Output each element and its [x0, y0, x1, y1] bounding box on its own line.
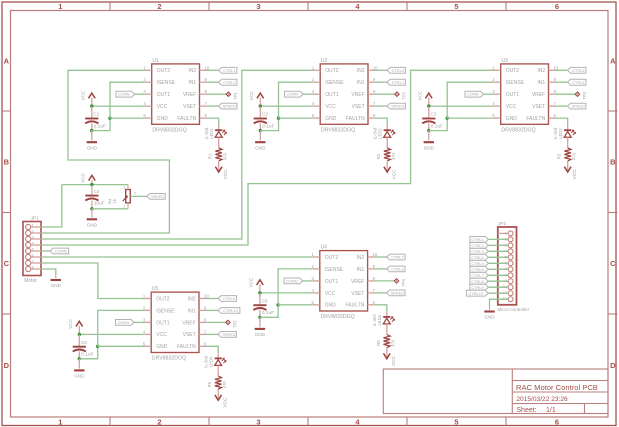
wire JP1 pin1 to VCC rail: [41, 185, 62, 227]
pin 9 IN1: [368, 81, 375, 83]
pin 8 VREF: [200, 93, 207, 95]
svg-text:VCC: VCC: [222, 397, 228, 408]
svg-text:2: 2: [32, 229, 34, 233]
vcc U5: [76, 321, 83, 326]
vcc below R3: [564, 167, 571, 172]
svg-text:JP1: JP1: [31, 215, 40, 221]
svg-text:FAULTN: FAULTN: [177, 116, 196, 122]
op-amp / motor-driver IC U5 DRV8832DGQ: [151, 292, 199, 352]
capacitor C6 0.1uF: [73, 346, 86, 348]
VCC supply symbol (U1): [91, 98, 93, 106]
net flag SPEED (U2): [387, 103, 405, 109]
VCC supply symbol (U3): [428, 98, 430, 106]
lead LED2: [386, 125, 388, 130]
wire U1.OUT2 to JP1 pin2: [41, 70, 169, 233]
svg-text:CONN: CONN: [286, 92, 298, 97]
lead C3 top: [428, 106, 430, 118]
wire VSET to SPEED: [375, 105, 387, 107]
pin 1 OUT2: [313, 69, 320, 71]
wire ISENSE riser to pin2: [447, 82, 494, 118]
svg-text:U2: U2: [321, 58, 328, 64]
pin 5 GND: [144, 345, 151, 347]
svg-text:LED2: LED2: [378, 128, 383, 139]
svg-text:VCC: VCC: [325, 291, 336, 297]
node VCC/C2 junction: [259, 104, 262, 107]
connector JP1 Motor: [23, 222, 41, 276]
svg-text:10: 10: [204, 294, 209, 299]
svg-text:JP2: JP2: [498, 221, 507, 227]
svg-text:C6: C6: [81, 340, 87, 345]
LED LED1 (IL-3nd): [215, 129, 222, 131]
svg-text:SPEED: SPEED: [572, 104, 585, 109]
wire to GND pin5: [278, 304, 313, 306]
net flag CTRL2: [219, 79, 237, 85]
capacitor C4 10uF: [85, 195, 98, 197]
vcc U3: [426, 93, 433, 98]
ground C5: [255, 328, 265, 330]
svg-text:C2: C2: [262, 112, 268, 117]
pin 8 VREF: [199, 321, 206, 323]
pin 3 OUT1: [313, 93, 320, 95]
pin 5 GND: [494, 117, 501, 119]
pin 9 IN1: [199, 309, 206, 311]
svg-text:CTRL9: CTRL9: [223, 296, 235, 301]
svg-text:8: 8: [32, 265, 34, 269]
lead C1 bottom: [91, 123, 93, 130]
net flag CONN (U1 OUT1): [135, 93, 145, 95]
svg-text:VSET: VSET: [352, 104, 365, 110]
svg-text:5: 5: [454, 2, 458, 11]
node GND pin junction: [446, 116, 449, 119]
svg-text:VREF: VREF: [183, 92, 196, 98]
pin 5 GND: [313, 117, 320, 119]
net flag CTRL8: [387, 266, 405, 272]
svg-text:CTRL7: CTRL7: [391, 255, 403, 260]
svg-text:1/1: 1/1: [546, 407, 556, 414]
lead R1 to VCC: [218, 161, 220, 172]
pin 10 IN2: [368, 69, 375, 71]
svg-text:CTRL1: CTRL1: [223, 68, 235, 73]
lead C4 bottom: [91, 200, 93, 208]
wire to GND pin5: [447, 117, 494, 119]
svg-text:LED1: LED1: [209, 128, 214, 139]
pin 8 VREF: [368, 280, 375, 282]
svg-text:CTRL8: CTRL8: [471, 279, 483, 284]
wire VSET to SPEED: [206, 333, 218, 335]
net flag CTRL10 (JP2): [466, 290, 488, 296]
LED LED4 (IL-3nd): [383, 316, 390, 318]
wire IN1 to CTRL4: [375, 81, 387, 83]
JP2 pin 2 pad: [508, 237, 513, 242]
JP1 pin 7 pad: [26, 260, 31, 265]
svg-text:10: 10: [554, 65, 559, 70]
svg-text:R3: R3: [557, 153, 562, 159]
svg-text:CTRL2: CTRL2: [223, 80, 235, 85]
svg-text:IN1: IN1: [188, 80, 196, 86]
VCC supply symbol (rail): [91, 180, 93, 185]
vcc rail: [89, 175, 96, 180]
frame row ticks: [2, 110, 11, 112]
pin 4 VCC: [313, 105, 320, 107]
wire C3-bottom to GND/ISENSE riser: [429, 118, 447, 131]
JP1 pin 8 pad: [26, 266, 31, 271]
svg-text:IN1: IN1: [357, 80, 365, 86]
vcc U1: [89, 93, 96, 98]
net flag CTRL10: [218, 308, 240, 314]
svg-text:CONN: CONN: [118, 92, 130, 97]
svg-text:CTRL7: CTRL7: [471, 273, 483, 278]
lead C4 to ground: [91, 209, 93, 218]
pin 2 ISENSE: [494, 81, 501, 83]
JP2 pin 8 pad: [508, 273, 513, 278]
node GND pin junction: [277, 116, 280, 119]
vcc below R6: [215, 395, 222, 400]
node C3 bottom junction: [427, 129, 430, 132]
svg-text:6: 6: [555, 2, 559, 11]
lead LED1: [218, 125, 220, 130]
net flag CTRL3 (JP2): [470, 248, 488, 254]
svg-text:U1: U1: [152, 58, 159, 64]
svg-text:DRV8832DGQ: DRV8832DGQ: [321, 127, 355, 133]
net flag CTRL6: [568, 79, 586, 85]
wire FAULTN to LED1: [207, 118, 219, 125]
ground C3: [424, 141, 434, 143]
wire VREF to TP2: [375, 93, 395, 95]
svg-text:10: 10: [373, 65, 378, 70]
wire FAULTN to LED2: [375, 118, 387, 125]
svg-text:OUT2: OUT2: [506, 68, 520, 74]
svg-text:C3: C3: [430, 112, 436, 117]
title block: [383, 369, 608, 414]
wire FAULTN to LED5: [206, 346, 218, 353]
wire R4 wiper to SPEED: [130, 195, 147, 197]
pin 2 ISENSE: [313, 81, 320, 83]
svg-text:FAULTN: FAULTN: [177, 344, 196, 350]
svg-text:LED5: LED5: [209, 356, 214, 367]
node C1 bottom junction: [90, 129, 93, 132]
svg-text:VCC: VCC: [325, 104, 336, 110]
svg-text:IN2: IN2: [537, 68, 545, 74]
net flag SPEED (U1): [219, 103, 237, 109]
svg-text:OUT2: OUT2: [156, 296, 170, 302]
lead LED3 to R3: [567, 137, 569, 148]
ground symbol under C6: [78, 359, 80, 369]
connector JP2 Micro-controller: [498, 227, 517, 305]
svg-text:TP5: TP5: [232, 320, 237, 328]
net flag CTRL2 (JP2): [470, 243, 488, 249]
ground symbol under C1: [91, 131, 93, 141]
JP2 pin 7 pad: [508, 267, 513, 272]
JP2 pin 3 pad: [508, 243, 513, 248]
lead LED4 to R5: [386, 324, 388, 335]
svg-text:GND: GND: [87, 222, 98, 227]
pin 10 IN2: [200, 69, 207, 71]
pin 4 VCC: [313, 292, 320, 294]
net flag CONN (JP1): [50, 248, 69, 254]
wire VREF to TP4: [375, 280, 395, 282]
JP2 pin 4 pad: [508, 249, 513, 254]
lead LED3: [567, 125, 569, 130]
svg-text:OUT1: OUT1: [325, 92, 339, 98]
wire U2.OUT2 to JP1 pin3: [41, 70, 313, 239]
svg-text:CTRL1: CTRL1: [471, 237, 483, 242]
pin 4 VCC: [494, 105, 501, 107]
svg-text:5: 5: [32, 247, 34, 251]
wire ISENSE riser to pin2: [110, 82, 145, 118]
svg-text:ISENSE: ISENSE: [156, 308, 175, 314]
JP1 pin 3 pad: [26, 236, 31, 241]
capacitor C1 0.1uF: [85, 118, 98, 120]
svg-text:IN1: IN1: [537, 80, 545, 86]
wire JP2 pin 6 to CTRL5: [488, 262, 508, 264]
wire VCC rail: [62, 184, 128, 186]
net flag CTRL5: [568, 67, 586, 73]
svg-text:7: 7: [32, 259, 34, 263]
net flag CTRL8 (JP2): [470, 278, 488, 284]
svg-text:DRV8832DGQ: DRV8832DGQ: [152, 356, 186, 362]
svg-text:TP1: TP1: [233, 91, 238, 99]
svg-text:C1: C1: [93, 112, 99, 117]
pin 3 OUT1: [313, 280, 320, 282]
svg-text:TP4: TP4: [401, 278, 406, 286]
op-amp / motor-driver IC U1 DRV8832DGQ: [152, 64, 200, 124]
wire VREF to TP3: [556, 93, 576, 95]
wire to GND pin5: [279, 117, 314, 119]
wire JP2 pin 8 to CTRL7: [488, 274, 508, 276]
svg-text:FAULTN: FAULTN: [345, 303, 364, 309]
JP2 pin 5 pad: [508, 255, 513, 260]
svg-text:Motor: Motor: [24, 278, 37, 284]
JP2 pin 1 pad: [508, 231, 513, 236]
pin 4 VCC: [144, 333, 151, 335]
net flag CTRL4: [387, 79, 405, 85]
wire U5.OUT2 to JP1 pin7: [41, 263, 144, 299]
svg-text:IN1: IN1: [188, 308, 196, 314]
ground C4: [87, 218, 97, 220]
svg-text:D: D: [4, 361, 10, 370]
test point TP5: [226, 320, 230, 324]
vcc below R2: [384, 167, 391, 172]
ground symbol under C5: [259, 317, 261, 327]
svg-text:Sheet:: Sheet:: [516, 407, 536, 414]
wire JP2 pin 9 to CTRL8: [488, 280, 508, 282]
svg-text:IN2: IN2: [188, 296, 196, 302]
svg-text:ISENSE: ISENSE: [157, 80, 176, 86]
lead LED1 to R1: [218, 137, 220, 148]
svg-text:VCC: VCC: [391, 355, 397, 366]
wire JP1 pin5 to CONN flag: [41, 250, 50, 252]
svg-text:VREF: VREF: [351, 279, 364, 285]
node C5 bottom junction: [258, 316, 261, 319]
svg-text:CONN: CONN: [467, 92, 479, 97]
wire IN2 to CTRL1: [207, 69, 219, 71]
wire C2-bottom to GND/ISENSE riser: [260, 118, 278, 131]
svg-text:LED4: LED4: [377, 314, 382, 325]
svg-text:3: 3: [256, 417, 260, 426]
svg-text:SPEED: SPEED: [151, 194, 164, 199]
svg-text:10: 10: [373, 252, 378, 257]
pin 1 OUT2: [494, 69, 501, 71]
wire U4.OUT2 to JP1 pin6: [41, 256, 313, 258]
VCC supply symbol (U2): [259, 98, 261, 106]
ground JP2: [484, 310, 494, 312]
svg-text:GND: GND: [506, 116, 518, 122]
svg-text:B: B: [4, 158, 10, 167]
net flag SPEED (U4): [387, 290, 405, 296]
net flag SPEED (U5): [218, 332, 236, 338]
wire IN2 to CTRL9: [206, 298, 218, 300]
svg-text:1: 1: [505, 231, 507, 235]
wire IN1 to CTRL10: [206, 309, 218, 311]
lead C4 top: [91, 185, 93, 196]
pin 3 OUT1: [145, 93, 152, 95]
svg-text:5: 5: [454, 417, 458, 426]
lead R5 to VCC: [386, 348, 388, 359]
pin 6 FAULTN: [549, 117, 556, 119]
svg-text:OUT1: OUT1: [157, 92, 171, 98]
lead C2 top: [259, 106, 261, 118]
pin 7 VSET: [549, 105, 556, 107]
node C2 bottom junction: [259, 129, 262, 132]
JP1 pin 2 pad: [26, 230, 31, 235]
pin 6 FAULTN: [200, 117, 207, 119]
svg-text:Micro-controller: Micro-controller: [498, 307, 530, 312]
test point TP4: [394, 279, 398, 283]
svg-text:VCC: VCC: [157, 104, 168, 110]
svg-text:CTRL4: CTRL4: [392, 80, 405, 85]
vcc U4: [257, 280, 264, 285]
JP2 pin 6 pad: [508, 261, 513, 266]
svg-text:SPEED: SPEED: [391, 104, 404, 109]
pin 7 VSET: [368, 292, 375, 294]
svg-text:SPEED: SPEED: [391, 290, 404, 295]
svg-text:GND: GND: [325, 303, 337, 309]
op-amp / motor-driver IC U2 DRV8832DGQ: [320, 64, 368, 124]
JP1 pin 4 pad: [26, 242, 31, 247]
wire JP2 pin 10 to CTRL9: [488, 286, 508, 288]
pin 7 VSET: [368, 105, 375, 107]
capacitor C5 0.1uF: [253, 304, 266, 306]
node GND pin junction: [108, 116, 111, 119]
svg-text:ISENSE: ISENSE: [325, 267, 344, 273]
node C4 bottom junction: [90, 207, 93, 210]
svg-text:VCC: VCC: [391, 169, 397, 180]
wire C6-bottom to GND/ISENSE riser: [79, 346, 97, 359]
svg-text:0.1uF: 0.1uF: [262, 310, 275, 316]
pin 6 FAULTN: [368, 117, 375, 119]
pin 10 IN2: [549, 69, 556, 71]
svg-text:CTRL3: CTRL3: [471, 249, 483, 254]
net flag CTRL3: [387, 67, 405, 73]
LED LED2 (IL-3nd): [384, 129, 391, 131]
svg-text:D: D: [610, 361, 616, 370]
node VCC/C1 junction: [90, 104, 93, 107]
resistor R1 470: [215, 148, 222, 161]
svg-text:IN1: IN1: [357, 267, 365, 273]
net flag CONN (U5 OUT1): [134, 321, 144, 323]
test point TP3: [575, 92, 579, 96]
wire GND rail to R4 bottom: [92, 208, 128, 210]
svg-text:FAULTN: FAULTN: [526, 116, 545, 122]
trimmer R4 1k: [126, 190, 131, 203]
pin 5 GND: [313, 304, 320, 306]
wire VCC feed to pin4: [260, 292, 313, 294]
svg-text:3: 3: [32, 235, 34, 239]
wire JP2 pin 12 to ground: [490, 299, 509, 306]
LED LED3 (IL-3nd): [564, 129, 571, 131]
net flag CTRL6 (JP2): [470, 266, 488, 272]
svg-text:CTRL4: CTRL4: [471, 255, 484, 260]
pin 6 FAULTN: [368, 304, 375, 306]
svg-text:LED3: LED3: [558, 128, 563, 139]
wire to GND pin5: [110, 117, 145, 119]
svg-text:VSET: VSET: [532, 104, 545, 110]
svg-text:GND: GND: [255, 145, 266, 150]
test point TP2: [395, 92, 399, 96]
svg-text:CTRL9: CTRL9: [471, 285, 483, 290]
pin 10 IN2: [199, 298, 206, 300]
svg-text:3: 3: [256, 2, 260, 11]
svg-text:DRV8832DGQ: DRV8832DGQ: [501, 127, 535, 133]
net flag CONN (U4 OUT1): [303, 280, 313, 282]
svg-text:IN2: IN2: [357, 255, 365, 261]
ground C1: [87, 141, 97, 143]
lead R6 to VCC: [217, 389, 219, 400]
svg-text:1: 1: [58, 2, 62, 11]
pin 1 OUT2: [313, 256, 320, 258]
wire U3.OUT2 to JP1 pin4: [41, 70, 494, 245]
capacitor C3 0.1uF: [422, 118, 435, 120]
net flag SPEED (U3): [568, 103, 586, 109]
svg-text:VREF: VREF: [532, 92, 545, 98]
wire FAULTN to LED4: [375, 305, 387, 312]
svg-text:GND: GND: [424, 145, 435, 150]
pin 2 ISENSE: [313, 268, 320, 270]
resistor R6 470: [215, 376, 222, 389]
lead R2 to VCC: [386, 161, 388, 172]
vcc U2: [257, 93, 264, 98]
svg-text:OUT1: OUT1: [325, 279, 339, 285]
wire JP2 pin 11 to CTRL10: [488, 292, 508, 294]
svg-text:CTRL8: CTRL8: [391, 267, 403, 272]
op-amp / motor-driver IC U3 DRV8832DGQ: [501, 64, 549, 124]
pin 2 ISENSE: [144, 309, 151, 311]
svg-text:GND: GND: [87, 145, 98, 150]
net flag CONN (U3 OUT1): [484, 93, 494, 95]
wire JP2 pin 2 to CTRL1: [488, 238, 508, 240]
wire IN2 to CTRL5: [556, 69, 568, 71]
svg-text:10uF: 10uF: [94, 201, 105, 207]
svg-text:ISENSE: ISENSE: [325, 80, 344, 86]
svg-text:VCC: VCC: [81, 172, 86, 182]
svg-text:470: 470: [222, 380, 227, 388]
pin 9 IN1: [368, 268, 375, 270]
resistor R5 470: [384, 335, 391, 348]
svg-text:SPEED: SPEED: [223, 104, 236, 109]
net flag CTRL7: [387, 254, 405, 260]
wire VCC feed to pin4: [92, 105, 145, 107]
pin 6 FAULTN: [199, 345, 206, 347]
test point TP1: [226, 92, 230, 96]
wire ISENSE riser to pin2: [278, 269, 313, 305]
wire IN2 to CTRL3: [375, 69, 387, 71]
svg-text:VCC: VCC: [249, 277, 254, 287]
svg-text:TP3: TP3: [582, 91, 587, 99]
lead C1 top: [91, 106, 93, 118]
JP2 pin 10 pad: [508, 285, 513, 290]
wire VSET to SPEED: [207, 105, 219, 107]
svg-text:R2: R2: [376, 153, 381, 159]
